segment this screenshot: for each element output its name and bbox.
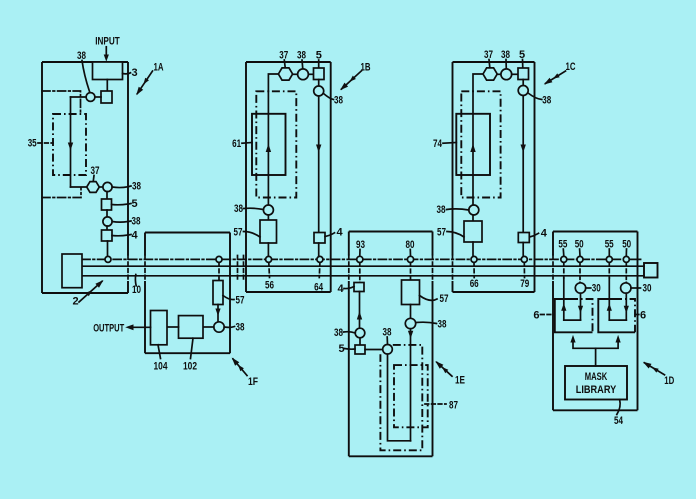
leader 38f [224, 326, 234, 329]
box 57e [402, 280, 420, 305]
svg-text:57: 57 [440, 293, 449, 305]
dashed leader to 56 [268, 263, 271, 278]
filter 74 center line [472, 91, 474, 205]
square 4e [354, 283, 364, 292]
box 1E outline [349, 232, 433, 457]
MASK LIBRARY box [565, 366, 627, 400]
U-loop in box6L [564, 319, 581, 321]
dashed crossing 1E right [432, 256, 434, 282]
leader 38 top [82, 61, 90, 92]
bus node circle 64 [317, 256, 323, 262]
leader 61 [242, 142, 252, 145]
leader 104 [158, 345, 161, 359]
circle 30a [575, 283, 585, 293]
leader 74 [443, 142, 456, 145]
leader 55b [608, 249, 610, 256]
filter 74 solid rect [456, 114, 490, 175]
svg-text:1B: 1B [361, 61, 371, 73]
leader 38c1 [505, 60, 507, 70]
svg-text:56: 56 [265, 280, 274, 292]
leader 50a [579, 249, 581, 256]
svg-text:3: 3 [131, 67, 137, 79]
box 1F outline [145, 233, 230, 354]
leader 5 [112, 204, 132, 205]
filter 61 center line [267, 91, 269, 205]
wire square4e down with up arrow [359, 292, 361, 329]
filter 74 dash-dot rect [461, 91, 500, 197]
bus upper solid line [82, 265, 644, 267]
square 5b [314, 68, 325, 80]
wire circle to square5b [308, 73, 313, 75]
dashed boundary mark 10a [144, 256, 146, 282]
circle 38b3 [263, 205, 273, 215]
wire 4c to bus [522, 243, 524, 257]
box 104 [151, 311, 168, 345]
svg-text:2: 2 [72, 296, 78, 308]
stem mask library [595, 348, 597, 366]
circle 38e2 [383, 345, 393, 355]
svg-text:37: 37 [91, 165, 100, 177]
leader 37b [283, 60, 286, 68]
square 4c [518, 233, 529, 243]
leader 57f [223, 296, 234, 300]
svg-text:OUTPUT: OUTPUT [93, 322, 124, 334]
leader 57e [420, 296, 438, 301]
wire square5 to circle C3 [106, 210, 108, 217]
svg-text:38: 38 [334, 327, 343, 339]
box 1B outline [246, 62, 331, 292]
leader 6R [635, 314, 640, 316]
wire hexagon row left 1B [268, 74, 278, 91]
wire C3 to square 4 [106, 226, 108, 230]
box 6L solid part [555, 299, 593, 332]
wire 30b into box6R with down arrow [625, 293, 627, 320]
bus lower solid line [82, 275, 644, 277]
leader 50b [625, 249, 627, 256]
box 6L dash-dot part [570, 299, 593, 332]
output wire with left arrow [132, 326, 151, 328]
leader 38 C2 [112, 186, 131, 188]
dashed wire 50a down [579, 263, 581, 283]
bus node circle 93 [357, 256, 363, 262]
svg-text:30: 30 [592, 283, 601, 295]
square 5e [355, 345, 365, 354]
square S1 [101, 91, 112, 103]
box 2 [62, 254, 82, 288]
circle 38e3 [405, 318, 415, 328]
svg-text:1F: 1F [248, 376, 258, 388]
box 3 [93, 62, 123, 80]
svg-text:1D: 1D [664, 375, 674, 387]
dashed crossing 1C left [452, 256, 454, 282]
svg-text:6: 6 [640, 309, 646, 321]
dashed wire 93 to square 4e [359, 263, 361, 283]
circle 30b [621, 283, 631, 293]
leader 5b [318, 60, 320, 68]
long wire down right side 1B [318, 96, 320, 233]
circle 38b2 [314, 86, 324, 96]
leader 38b2 [324, 94, 334, 100]
svg-text:57: 57 [437, 226, 446, 238]
pointer arrow 1F [233, 359, 247, 376]
dashed wire 55a down [563, 263, 565, 279]
bus node circle 55a [561, 256, 567, 262]
leader 4c [530, 233, 539, 237]
dashed wire 80 to box 57e [410, 263, 412, 280]
svg-text:38: 38 [542, 95, 551, 107]
leader 38e2 [386, 337, 388, 344]
box 6R dash-dot part [614, 299, 635, 332]
svg-text:57: 57 [234, 226, 243, 238]
bus node circle 79 [521, 256, 527, 262]
svg-text:1C: 1C [566, 61, 576, 73]
box 6R solid part [598, 299, 635, 332]
svg-text:4: 4 [541, 227, 548, 239]
circle 38c2 [518, 86, 528, 96]
wire square5c to circle 38c2 [522, 80, 524, 86]
leader 6L [541, 314, 555, 316]
leader 38c2 [528, 93, 542, 100]
bus node circle 80 [407, 256, 413, 262]
pointer arrow 1D [645, 363, 665, 375]
wire box3 to square S1 [106, 80, 108, 92]
wire 55a into box6L with up arrow [563, 278, 565, 320]
down arrow in filter 35 [68, 143, 73, 151]
circle 38b1 [298, 69, 309, 80]
pointer arrow 1B [342, 71, 362, 89]
svg-text:30: 30 [643, 283, 652, 295]
svg-text:38: 38 [334, 95, 343, 107]
circle 38c3 [469, 205, 479, 215]
svg-text:4: 4 [131, 229, 138, 241]
svg-text:87: 87 [449, 399, 458, 411]
svg-text:4: 4 [336, 226, 343, 238]
dashed crossing 1E left [348, 256, 350, 282]
box 57c [464, 221, 482, 242]
filter 87 inner dash-dot rect [394, 365, 428, 427]
circle 38e1 [355, 328, 365, 338]
box 1D outline [553, 232, 638, 411]
bus node circle 50a [577, 256, 583, 262]
dashed wire bus to box 57f [218, 263, 220, 281]
wire circle to box 57b [267, 215, 269, 220]
wire 57e to circle 38e3 [410, 305, 412, 319]
svg-text:38: 38 [438, 319, 447, 331]
circle C2 (38) [103, 182, 112, 191]
leader 4b [325, 233, 335, 237]
leader 38 C3 [112, 221, 131, 222]
square 5c [518, 68, 529, 80]
wire square5b to circle 38b2 [318, 80, 320, 87]
svg-text:1E: 1E [455, 375, 465, 387]
dashed boundary mark b2 [243, 256, 245, 282]
svg-text:79: 79 [520, 278, 529, 290]
bus end box (right terminator) [644, 263, 658, 278]
wire S1 to circle C1 [95, 96, 101, 98]
down arrow on wire 1C [521, 145, 526, 153]
wire C2 to square 5 [106, 192, 108, 199]
wire 57f to circle 38f with down arrow [217, 305, 219, 322]
square 4 [102, 230, 113, 241]
leader 55a [562, 249, 565, 256]
circle C3 (38) [103, 217, 112, 226]
dashed boundary mark at 1A right edge [127, 256, 129, 282]
up arrow in filter 61 [266, 144, 271, 152]
leader 80 [409, 250, 411, 256]
leader 38c3 [447, 209, 469, 210]
leader 93 [359, 250, 361, 256]
svg-text:38: 38 [437, 204, 446, 216]
leader 102 [191, 338, 194, 358]
dashed leader to 66 [473, 263, 475, 278]
dashed wire 55b down [608, 263, 610, 279]
square 4b [314, 233, 325, 244]
svg-text:35: 35 [28, 138, 37, 150]
wire 57b to bus [267, 243, 269, 256]
leader 57b [244, 232, 261, 238]
svg-text:66: 66 [470, 278, 479, 290]
filter 87 outer dash-dot rect [380, 345, 422, 450]
filter 35 center line [70, 97, 72, 187]
filter 35 dash-dot rect [53, 114, 86, 175]
hexagon 37 [87, 182, 100, 193]
wire filter bottom to hexagon [71, 186, 87, 188]
leader 37 [92, 176, 95, 182]
svg-text:MASK: MASK [585, 371, 608, 383]
dash-dot bypass lower [42, 188, 81, 198]
leader 38e3 [416, 322, 437, 323]
wire square4 to bus node [107, 241, 109, 257]
down arrow on wire 1B [316, 145, 321, 153]
svg-text:104: 104 [154, 360, 169, 372]
leader 54 [617, 400, 620, 415]
bus node circle 66 [471, 256, 477, 262]
box 1C outline [453, 62, 535, 292]
pointer arrow 2 [79, 281, 102, 302]
leader 30b [631, 287, 641, 289]
bus node circle 1F [216, 256, 222, 262]
wire circle to box 57c [472, 215, 474, 221]
fork from mask library to boxes [573, 341, 618, 348]
leader 38b1 [301, 60, 304, 69]
svg-text:1A: 1A [154, 62, 164, 74]
leader 3 [123, 73, 131, 74]
wire 4b to bus [318, 243, 320, 256]
box 102 [179, 316, 204, 339]
wire hex to circle 1C [497, 73, 501, 75]
box 57b [260, 220, 277, 243]
leader 35 [38, 142, 53, 144]
svg-text:102: 102 [183, 360, 197, 372]
dashed wire 50b down [625, 263, 627, 283]
loop wire in 87 [388, 354, 411, 441]
leader 5e [345, 348, 356, 351]
circle 38c1 [501, 69, 512, 80]
svg-text:38: 38 [236, 321, 245, 333]
leader 38e1 [344, 332, 356, 333]
svg-text:5: 5 [131, 198, 137, 210]
pointer arrow 1E [437, 362, 452, 376]
dashed crossing 1D left [552, 256, 554, 282]
leader 5c [522, 60, 524, 69]
filter 61 dash-dot rect [256, 91, 296, 197]
pointer arrow 1A [137, 71, 152, 94]
svg-text:LIBRARY: LIBRARY [576, 384, 617, 396]
input arrow [105, 47, 107, 56]
dashed boundary mark b1 [237, 256, 239, 282]
bus node circle 50b [623, 256, 629, 262]
circle C1 (38) [86, 93, 95, 102]
leader 10 [134, 275, 137, 286]
wire square5e to circle 38e2 [365, 349, 383, 351]
svg-text:64: 64 [314, 282, 324, 294]
dashed leader to 64 [318, 263, 321, 278]
bus dash-dot centerline [82, 258, 643, 260]
bus node circle 55b [606, 256, 612, 262]
wire C1 to filter line [71, 96, 87, 98]
leader 57c [447, 232, 464, 238]
wire 102 to 104 [167, 326, 179, 328]
svg-text:6: 6 [533, 309, 539, 321]
svg-text:57: 57 [236, 294, 245, 306]
leader 87 [425, 403, 446, 405]
box 1A outline [42, 62, 128, 293]
dashed leader to 79 [523, 263, 525, 278]
long wire down right side 1C [522, 96, 524, 233]
svg-text:74: 74 [433, 138, 443, 150]
square 5 [102, 199, 112, 210]
wire circle38f to box102 [203, 326, 214, 328]
hexagon 37c [483, 68, 497, 80]
svg-text:38: 38 [234, 203, 243, 215]
wire hexagon to circle C2 [99, 186, 103, 188]
svg-text:38: 38 [132, 181, 141, 193]
wire hex to circle 1B [293, 73, 298, 75]
bus node circle 56 [266, 256, 272, 262]
box 57f [213, 281, 223, 305]
dash-dot bypass upper [42, 91, 81, 114]
svg-text:61: 61 [232, 138, 241, 150]
U-loop in box6R [609, 319, 626, 321]
svg-text:INPUT: INPUT [95, 36, 120, 48]
circle 38f [214, 322, 224, 332]
filter 61 solid rect [252, 114, 286, 175]
pointer arrow 1C [546, 71, 566, 83]
wire 30a into box6L with down arrow [580, 293, 582, 320]
wire circle38e1 to square5e [359, 338, 361, 345]
leader 37c [488, 60, 491, 68]
leader 4e [344, 287, 354, 289]
wire circle to square5c [512, 73, 518, 75]
wire 55b into box6R with up arrow [608, 278, 610, 320]
leader 38b3 [244, 208, 264, 209]
leader 4 [112, 235, 131, 236]
svg-text:54: 54 [614, 415, 624, 427]
hexagon 37b [278, 68, 292, 80]
leader 30a [586, 287, 591, 289]
wire circle38e3 down with down arrow [410, 329, 412, 441]
wire 57c to bus [472, 242, 474, 256]
bus node circle 1A [105, 256, 111, 262]
svg-text:38: 38 [132, 215, 141, 227]
wire hexagon row left 1C [473, 74, 483, 91]
up arrow in filter 74 [470, 144, 475, 152]
